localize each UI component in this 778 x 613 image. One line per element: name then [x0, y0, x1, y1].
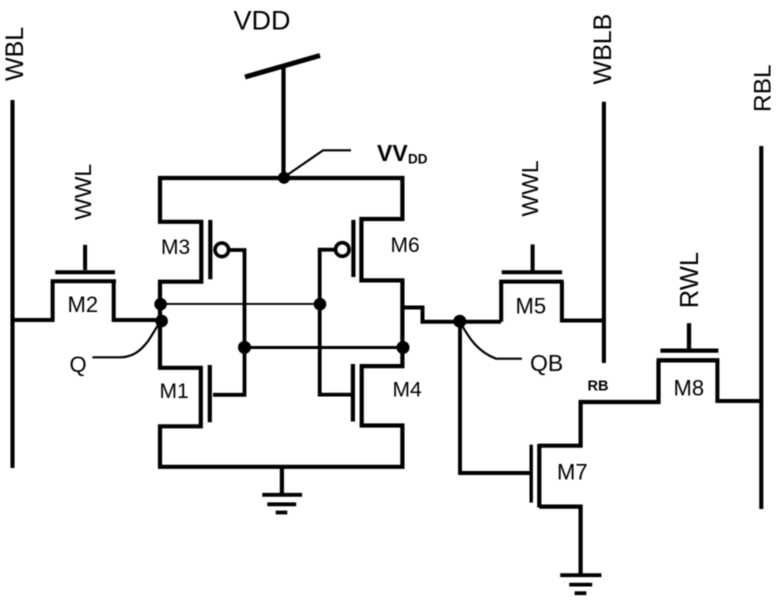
svg-text:VDD: VDD — [234, 6, 291, 36]
svg-text:QB: QB — [530, 350, 563, 376]
svg-text:M3: M3 — [161, 236, 190, 259]
svg-text:RWL: RWL — [676, 252, 704, 308]
svg-text:WWL: WWL — [517, 160, 543, 216]
svg-text:M6: M6 — [391, 234, 420, 257]
svg-text:VV: VV — [377, 140, 408, 166]
svg-text:WWL: WWL — [70, 164, 96, 220]
svg-text:RBL: RBL — [750, 64, 777, 112]
svg-text:WBL: WBL — [1, 27, 29, 81]
svg-text:M1: M1 — [160, 380, 189, 403]
svg-text:M2: M2 — [68, 292, 99, 317]
svg-text:DD: DD — [408, 152, 428, 167]
svg-text:M8: M8 — [674, 376, 705, 401]
svg-text:M5: M5 — [516, 294, 547, 319]
svg-text:M7: M7 — [557, 460, 588, 485]
svg-text:Q: Q — [70, 352, 87, 377]
svg-text:WBLB: WBLB — [589, 14, 617, 85]
svg-text:RB: RB — [588, 379, 609, 395]
svg-text:M4: M4 — [393, 379, 422, 402]
